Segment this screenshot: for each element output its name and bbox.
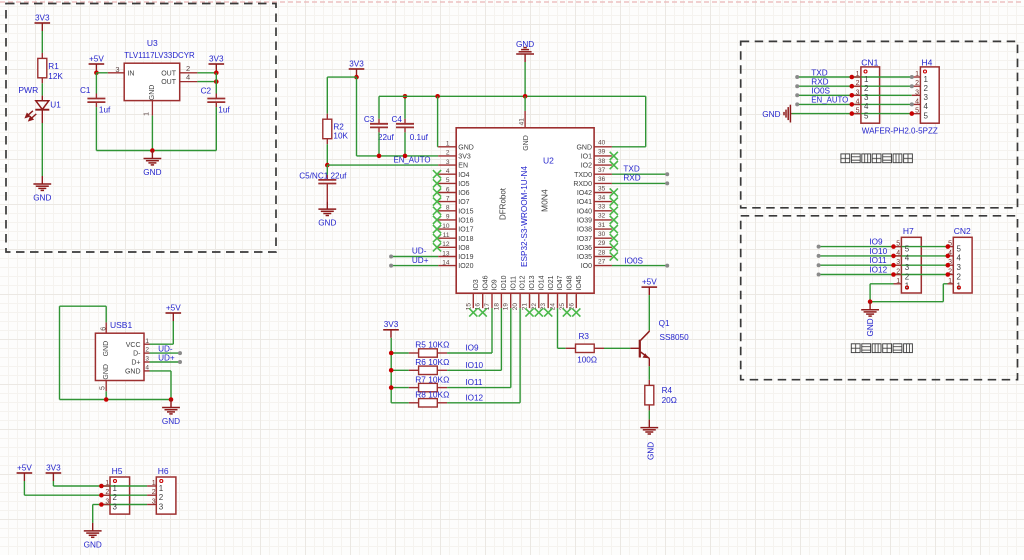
svg-text:U2: U2 <box>543 155 554 165</box>
svg-text:U1: U1 <box>50 101 61 110</box>
svg-text:2: 2 <box>905 272 910 281</box>
svg-text:10: 10 <box>442 223 450 230</box>
caption: external programming interface <box>851 344 860 353</box>
junction gnd loop <box>868 299 873 304</box>
U3 pin 2 OUT <box>180 72 198 74</box>
svg-text:R4: R4 <box>662 386 673 395</box>
svg-text:IO11: IO11 <box>869 256 887 265</box>
wire GND to H5 pin3 <box>92 505 94 523</box>
svg-text:4: 4 <box>145 365 149 372</box>
svg-text:IO0: IO0 <box>581 263 592 270</box>
svg-text:7: 7 <box>446 195 450 202</box>
svg-text:2: 2 <box>105 489 109 496</box>
svg-text:0.1uf: 0.1uf <box>410 133 429 142</box>
svg-text:IO14: IO14 <box>538 275 545 290</box>
svg-text:30: 30 <box>598 231 606 238</box>
wire C1 to ground rail <box>95 107 97 150</box>
svg-text:IO12: IO12 <box>465 393 483 402</box>
wire H7 pin1 gnd loop <box>870 283 893 285</box>
svg-text:+5V: +5V <box>17 463 32 472</box>
svg-text:IO40: IO40 <box>577 208 592 215</box>
svg-text:H7: H7 <box>903 226 914 236</box>
wire GND rail right drop to pin40 <box>645 96 647 147</box>
svg-text:RXD: RXD <box>811 78 828 87</box>
svg-text:IO1: IO1 <box>581 154 592 161</box>
svg-text:+5V: +5V <box>642 278 657 287</box>
svg-text:UD+: UD+ <box>412 256 429 265</box>
power flag 3V3 (U3 output) <box>209 63 225 65</box>
svg-text:27: 27 <box>598 258 606 265</box>
svg-text:OUT: OUT <box>161 70 177 77</box>
connector H7 body <box>901 237 921 293</box>
svg-text:5: 5 <box>957 244 962 253</box>
svg-text:EN: EN <box>458 163 468 170</box>
wire 3V3 to R1 <box>41 31 43 53</box>
svg-text:GND: GND <box>762 110 780 119</box>
svg-text:20: 20 <box>512 303 519 311</box>
svg-text:2: 2 <box>915 80 919 87</box>
svg-text:Q1: Q1 <box>659 319 670 328</box>
svg-text:RXD0: RXD0 <box>573 181 592 188</box>
CN2 pins 5-1 <box>948 246 954 248</box>
svg-text:5: 5 <box>896 241 900 248</box>
wire U3 out to 3V3 <box>197 72 216 74</box>
svg-text:4: 4 <box>905 254 910 263</box>
svg-text:3: 3 <box>896 259 900 266</box>
svg-text:2: 2 <box>957 272 962 281</box>
net label IO0S (CN1) <box>795 93 799 97</box>
svg-text:14: 14 <box>442 259 450 266</box>
svg-text:1: 1 <box>915 71 919 78</box>
junction GND rail pin41 <box>523 94 528 99</box>
svg-text:H4: H4 <box>922 57 933 67</box>
svg-text:2: 2 <box>856 80 860 87</box>
svg-text:M0N4: M0N4 <box>539 189 549 212</box>
svg-text:OUT: OUT <box>161 79 177 86</box>
power flag 3V3 (EN pullup) <box>349 68 365 70</box>
U2 top pin 41 GND <box>524 111 526 128</box>
net label EN_AUTO (CN1) <box>795 102 799 106</box>
capacitor C1 1uf <box>95 73 97 94</box>
junction dots H4 pin ends <box>910 75 914 79</box>
junction pullup rail R7 <box>389 385 394 390</box>
H6 pins 1-3 <box>147 485 156 487</box>
svg-text:H6: H6 <box>158 466 169 476</box>
svg-text:3: 3 <box>159 502 164 511</box>
svg-text:C2: C2 <box>201 86 212 95</box>
svg-text:2: 2 <box>145 347 149 354</box>
ground (H7) <box>861 302 879 316</box>
svg-text:IO36: IO36 <box>577 245 592 252</box>
svg-text:IO15: IO15 <box>458 208 473 215</box>
svg-text:38: 38 <box>598 158 606 165</box>
svg-text:IO17: IO17 <box>458 227 473 234</box>
svg-text:5: 5 <box>905 244 910 253</box>
svg-text:1: 1 <box>896 278 900 285</box>
svg-text:3: 3 <box>152 499 156 506</box>
wire R8 to U2 IO12 <box>447 402 520 404</box>
wire 3V3 to H5 pin1 <box>52 481 54 486</box>
net label IO0S with wire <box>612 265 667 267</box>
svg-text:1: 1 <box>924 75 929 84</box>
junction USB gnd rail pin5 <box>104 397 109 402</box>
svg-text:C5/NC1: C5/NC1 <box>299 171 329 180</box>
svg-text:IO6: IO6 <box>458 190 469 197</box>
svg-text:R8 10KΩ: R8 10KΩ <box>415 391 449 400</box>
svg-text:3V3: 3V3 <box>35 13 50 22</box>
svg-text:36: 36 <box>598 176 606 183</box>
svg-text:IO10: IO10 <box>869 247 887 256</box>
svg-text:WAFER-PH2.0-5PZZ: WAFER-PH2.0-5PZZ <box>862 126 938 135</box>
svg-text:IO47: IO47 <box>557 275 564 290</box>
U2 right pins 40-27 <box>594 146 612 148</box>
svg-text:6: 6 <box>446 186 450 193</box>
svg-text:EN_AUTO: EN_AUTO <box>811 96 848 105</box>
wire 3V3 pullup rail vertical <box>390 338 392 403</box>
svg-text:3: 3 <box>957 263 962 272</box>
svg-text:37: 37 <box>598 167 606 174</box>
svg-text:3: 3 <box>915 89 919 96</box>
svg-text:IO38: IO38 <box>577 227 592 234</box>
svg-text:4: 4 <box>924 102 929 111</box>
svg-text:22uf: 22uf <box>378 133 395 142</box>
svg-text:1: 1 <box>159 484 164 493</box>
connector USB1 body <box>95 333 144 380</box>
net label IO10 (H7) <box>817 254 821 258</box>
wire GND drop to pin1 <box>437 96 439 147</box>
wire GND rail horizontal <box>379 95 646 97</box>
H5 pins 1-3 <box>101 485 110 487</box>
no-connect marks U2 bottom pins <box>469 308 477 316</box>
svg-text:GND: GND <box>33 194 51 203</box>
svg-text:C1: C1 <box>80 86 91 95</box>
junction +5V node <box>94 71 99 76</box>
wire EN node to U2 pin3 <box>327 164 438 166</box>
connector H4 body <box>920 67 939 123</box>
wire R1 to LED U1 <box>41 83 43 95</box>
svg-text:12K: 12K <box>48 72 63 81</box>
svg-text:R5 10KΩ: R5 10KΩ <box>415 341 449 350</box>
power flag +5V (USB) <box>166 312 182 314</box>
svg-text:C4: C4 <box>392 115 403 124</box>
resistor R8 10K <box>391 402 409 404</box>
capacitor C3 22uf <box>378 96 380 119</box>
svg-text:29: 29 <box>598 240 606 247</box>
wire GND rail to pin41 <box>524 96 526 111</box>
svg-text:GND: GND <box>458 144 474 151</box>
resistor R4 20 <box>648 380 650 386</box>
svg-text:TXD: TXD <box>623 164 639 173</box>
power flag +5V (H5) <box>17 472 33 474</box>
svg-text:5: 5 <box>915 108 919 115</box>
CN1 pins 1-5 <box>852 76 861 78</box>
module U2 ESP32-S3-WROOM-1U-N4 body <box>456 128 594 293</box>
U2 bottom pins 15-26 <box>472 293 474 308</box>
net label UD+ with wire (U2 pin14) <box>391 265 438 267</box>
svg-text:11: 11 <box>443 232 450 239</box>
svg-text:GND: GND <box>143 168 161 177</box>
svg-text:GND: GND <box>647 442 656 460</box>
svg-text:GND: GND <box>103 341 110 357</box>
svg-text:1: 1 <box>948 278 952 285</box>
svg-text:PWR: PWR <box>18 85 38 95</box>
svg-text:GND: GND <box>125 369 141 376</box>
junction pullup rail R6 <box>389 368 394 373</box>
wire LED to ground <box>41 123 43 176</box>
svg-text:3: 3 <box>115 65 119 74</box>
svg-text:UD-: UD- <box>158 344 173 353</box>
svg-text:4: 4 <box>446 168 450 175</box>
junction C4 top <box>403 94 408 99</box>
section box: power indicator <box>6 4 276 253</box>
svg-text:22uf: 22uf <box>331 171 348 180</box>
svg-text:4: 4 <box>864 102 869 111</box>
svg-text:4: 4 <box>896 250 900 257</box>
wire +5V to Q1 collector <box>648 295 650 330</box>
svg-text:R7 10KΩ: R7 10KΩ <box>415 375 449 384</box>
svg-text:IO12: IO12 <box>520 275 527 290</box>
svg-text:IO10: IO10 <box>465 361 483 370</box>
svg-text:GND: GND <box>866 318 875 336</box>
svg-text:2: 2 <box>446 150 450 157</box>
svg-text:21: 21 <box>522 303 529 311</box>
svg-text:5: 5 <box>856 108 860 115</box>
svg-text:IO37: IO37 <box>577 236 592 243</box>
svg-text:GND: GND <box>84 541 102 550</box>
no-connect marks U2 left pins 4-12 <box>433 170 441 178</box>
capacitor C2 1uf <box>215 73 217 94</box>
U3 pin 3 IN <box>108 72 124 74</box>
svg-text:IO0S: IO0S <box>624 257 643 266</box>
power flag 3V3 (H5) <box>46 472 62 474</box>
svg-text:UD+: UD+ <box>158 354 175 363</box>
svg-text:2: 2 <box>864 84 869 93</box>
net label UD- with wire (USB D-) <box>150 352 181 354</box>
svg-text:IN: IN <box>127 70 134 77</box>
svg-text:IO35: IO35 <box>577 254 592 261</box>
ground (C5) <box>318 201 336 215</box>
svg-text:SS8050: SS8050 <box>660 333 690 342</box>
svg-text:1: 1 <box>113 484 118 493</box>
resistor R3 100 <box>566 347 576 349</box>
svg-text:10K: 10K <box>333 131 348 140</box>
svg-text:TLV1117LV33DCYR: TLV1117LV33DCYR <box>124 51 195 60</box>
svg-text:2: 2 <box>186 64 190 73</box>
ground (LED branch) <box>33 176 51 190</box>
svg-text:GND: GND <box>318 219 336 228</box>
svg-text:1: 1 <box>152 480 156 487</box>
junction 3V3 centre <box>354 75 359 80</box>
junction USB gnd rail <box>169 397 174 402</box>
svg-text:IO11: IO11 <box>465 378 483 387</box>
svg-text:2: 2 <box>896 269 900 276</box>
wire R3 to Q1 base <box>604 347 630 349</box>
svg-text:35: 35 <box>598 185 606 192</box>
net label RXD with wire <box>612 182 667 184</box>
wire U3 out2 to 3V3 rail <box>197 81 216 83</box>
svg-text:3V3: 3V3 <box>458 154 471 161</box>
svg-text:31: 31 <box>598 222 606 229</box>
svg-text:34: 34 <box>598 194 606 201</box>
svg-text:VCC: VCC <box>126 342 141 349</box>
power flag 3V3 (LED branch) <box>35 22 51 24</box>
svg-text:IO9: IO9 <box>492 279 499 290</box>
capacitor C4 0.1uf <box>404 96 406 119</box>
wire R5 to U2 IO9 <box>447 352 492 354</box>
U2 left pins 1-14 <box>438 146 456 148</box>
svg-text:5: 5 <box>864 111 869 120</box>
wire R7 to U2 IO11 <box>447 387 511 389</box>
ground (U3) <box>144 151 162 165</box>
wire 3V3 rail to U2 pin2 <box>357 155 439 157</box>
svg-text:3: 3 <box>856 89 860 96</box>
svg-text:3: 3 <box>105 499 109 506</box>
wire USB pin5 to rail <box>105 391 107 399</box>
section box: program and debug interface <box>741 41 1018 207</box>
svg-text:IO9: IO9 <box>869 238 883 247</box>
junction GND rail pin1 drop <box>435 94 440 99</box>
power flag +5V (Q1) <box>642 286 658 288</box>
svg-text:UD-: UD- <box>412 247 427 256</box>
svg-text:IO42: IO42 <box>577 190 592 197</box>
wire gnd flag to rail <box>524 62 526 96</box>
svg-text:GND: GND <box>576 144 592 151</box>
svg-text:IO5: IO5 <box>458 181 469 188</box>
svg-text:IO3: IO3 <box>473 279 480 290</box>
svg-text:GND: GND <box>149 85 156 101</box>
svg-text:IO12: IO12 <box>869 266 887 275</box>
svg-text:32: 32 <box>598 213 606 220</box>
no-connect marks U2 right pins <box>610 152 618 160</box>
svg-text:ESP32-S3-WROOM-1U-N4: ESP32-S3-WROOM-1U-N4 <box>519 166 529 267</box>
svg-text:GND: GND <box>162 417 180 426</box>
ground (H5) <box>84 523 102 537</box>
connector CN1 body <box>861 67 880 123</box>
svg-text:DFRobot: DFRobot <box>498 187 507 220</box>
svg-text:IO7: IO7 <box>458 199 469 206</box>
svg-text:19: 19 <box>503 303 510 311</box>
wire R2 to EN node <box>326 144 328 165</box>
svg-text:+5V: +5V <box>89 54 104 63</box>
svg-text:3V3: 3V3 <box>46 463 61 472</box>
svg-text:IO18: IO18 <box>458 236 473 243</box>
wire U3 GND pin to rail <box>151 116 153 151</box>
svg-text:4: 4 <box>957 254 962 263</box>
svg-text:R3: R3 <box>579 332 590 341</box>
svg-text:IO0S: IO0S <box>811 87 830 96</box>
svg-text:EN_AUTO: EN_AUTO <box>394 155 431 164</box>
resistor R6 10K <box>391 369 409 371</box>
net label TXD with wire <box>612 173 667 175</box>
capacitor C5/NC1 22uf <box>326 165 328 175</box>
ground (Q1 emitter) <box>640 420 658 434</box>
wire R6 to U2 IO10 <box>447 369 501 371</box>
wire 3V3 to R2 <box>327 76 356 78</box>
svg-text:3V3: 3V3 <box>384 320 399 329</box>
svg-text:3V3: 3V3 <box>209 54 224 63</box>
svg-text:13: 13 <box>442 250 450 257</box>
ground flag above U2 <box>516 48 534 62</box>
svg-text:4: 4 <box>856 98 860 105</box>
svg-text:IO16: IO16 <box>458 218 473 225</box>
svg-text:8: 8 <box>446 205 450 212</box>
svg-text:1: 1 <box>105 480 109 487</box>
net label IO12 (H7) <box>817 273 821 277</box>
net label IO11 (H7) <box>817 263 821 267</box>
svg-text:IO46: IO46 <box>482 275 489 290</box>
svg-text:1: 1 <box>856 71 860 78</box>
svg-text:TXD: TXD <box>811 68 827 77</box>
junction C4 bottom <box>403 154 408 159</box>
svg-text:R2: R2 <box>333 123 344 132</box>
wire USB GND pin to ground <box>150 370 172 372</box>
junction ground node <box>150 148 155 153</box>
svg-text:1uf: 1uf <box>99 105 111 114</box>
svg-text:U3: U3 <box>147 38 158 48</box>
net label UD+ with wire (USB D+) <box>150 361 181 363</box>
net label TXD (CN1) <box>795 75 799 79</box>
wire U2 IO47 to R3 <box>557 308 559 348</box>
U3 pin 1 GND <box>151 101 153 116</box>
wire Q1 emitter to R4 <box>648 366 650 380</box>
svg-text:IO21: IO21 <box>548 275 555 290</box>
resistor R1 12K <box>41 53 43 59</box>
svg-text:R6 10KΩ: R6 10KΩ <box>415 358 449 367</box>
wire R4 to ground <box>648 410 650 419</box>
svg-text:20Ω: 20Ω <box>662 396 677 405</box>
USB1 right pins 1-4 <box>144 343 150 345</box>
svg-text:CN1: CN1 <box>861 57 878 67</box>
svg-text:4: 4 <box>186 73 190 82</box>
svg-text:IO9: IO9 <box>465 344 479 353</box>
svg-text:3V3: 3V3 <box>349 59 364 68</box>
wire +5V to U3 pin3 <box>96 72 107 74</box>
svg-text:IO10: IO10 <box>501 275 508 290</box>
svg-text:1: 1 <box>145 338 149 345</box>
svg-text:R1: R1 <box>48 62 59 71</box>
svg-text:41: 41 <box>519 118 526 126</box>
svg-text:RXD: RXD <box>623 174 640 183</box>
svg-text:GND: GND <box>103 364 110 380</box>
net label UD- with wire (U2 pin13) <box>391 256 438 258</box>
svg-text:39: 39 <box>598 149 606 156</box>
wire 3V3 vertical to rail <box>356 77 358 156</box>
svg-text:GND: GND <box>523 135 530 151</box>
transistor Q1 SS8050 <box>630 347 640 349</box>
wires CN1 rows to H4 <box>797 76 912 78</box>
wires H7 rows to CN2 <box>819 246 948 248</box>
junction 3V3 node <box>214 71 219 76</box>
net label IO9 (H7) <box>817 245 821 249</box>
svg-text:12: 12 <box>442 241 450 248</box>
svg-text:2: 2 <box>159 493 164 502</box>
USB1 pin 6 top <box>105 322 107 333</box>
svg-text:33: 33 <box>598 204 606 211</box>
svg-text:3: 3 <box>924 93 929 102</box>
ground (CN1 row5, rotated) <box>784 105 792 123</box>
ground (USB) <box>162 400 180 414</box>
svg-text:D-: D- <box>133 351 141 358</box>
svg-text:TXD0: TXD0 <box>574 172 592 179</box>
junction 3V3 node 2 <box>214 79 219 84</box>
regulator U3 TLV1117LV33DCYR body <box>124 63 180 100</box>
connector H6 body <box>156 477 176 514</box>
svg-text:IO39: IO39 <box>577 218 592 225</box>
svg-text:3: 3 <box>864 93 869 102</box>
svg-text:IO2: IO2 <box>581 163 592 170</box>
svg-text:28: 28 <box>598 249 606 256</box>
resistor R5 10K <box>391 352 409 354</box>
